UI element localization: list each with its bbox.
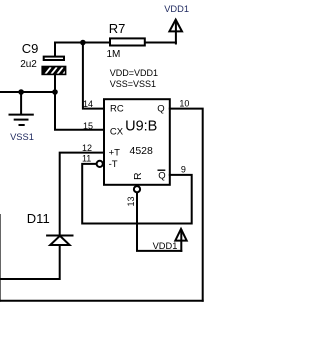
svg-text:VSS1: VSS1 [10, 132, 34, 142]
svg-text:C9: C9 [22, 41, 39, 56]
svg-text:10: 10 [179, 98, 189, 108]
svg-text:D11: D11 [27, 211, 50, 226]
svg-text:U9:B: U9:B [125, 118, 157, 134]
svg-text:15: 15 [83, 121, 93, 131]
svg-text:14: 14 [83, 99, 93, 109]
svg-text:RC: RC [110, 103, 124, 114]
svg-text:R: R [132, 172, 144, 180]
svg-text:VDD1: VDD1 [153, 241, 178, 251]
svg-text:Q: Q [158, 170, 165, 181]
svg-text:+T: +T [109, 148, 121, 159]
svg-text:VDD1: VDD1 [164, 4, 189, 14]
svg-text:11: 11 [82, 153, 91, 163]
svg-text:CX: CX [110, 127, 124, 138]
svg-text:VSS=VSS1: VSS=VSS1 [110, 79, 156, 89]
svg-text:2u2: 2u2 [20, 59, 37, 70]
svg-text:9: 9 [181, 165, 186, 175]
svg-text:R7: R7 [109, 21, 126, 36]
svg-text:-T: -T [109, 159, 118, 170]
svg-text:4528: 4528 [130, 145, 154, 157]
svg-text:VDD=VDD1: VDD=VDD1 [110, 68, 158, 78]
svg-text:1M: 1M [107, 49, 121, 60]
svg-text:13: 13 [126, 196, 136, 206]
svg-text:Q: Q [157, 103, 164, 114]
svg-text:12: 12 [82, 143, 92, 153]
